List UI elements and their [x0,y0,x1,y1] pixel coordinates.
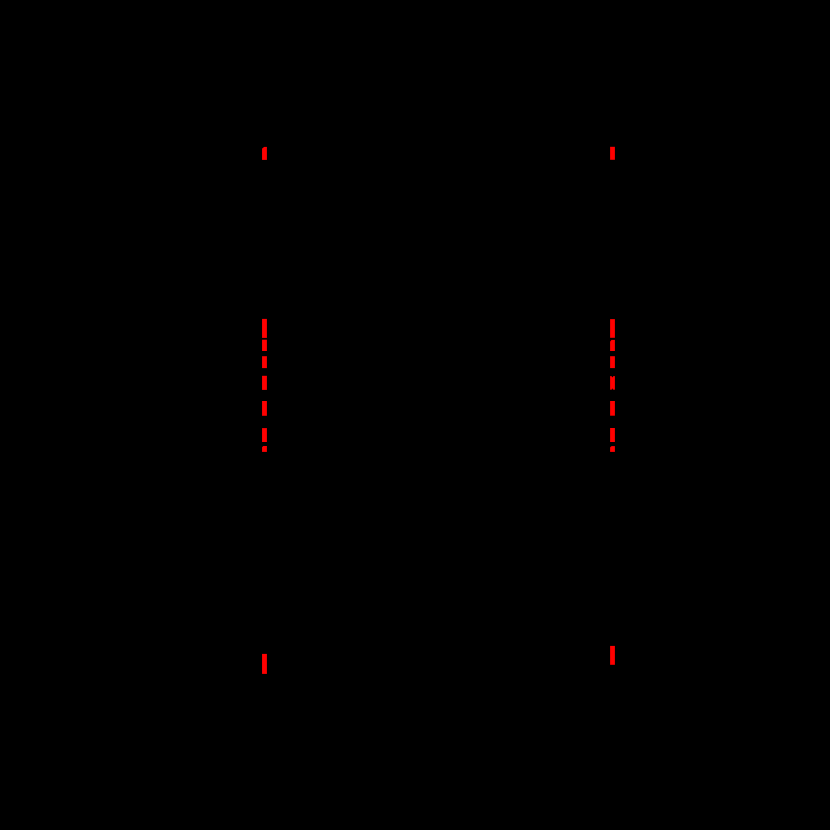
left cut-line dash 1 [262,147,267,160]
left cut-line dash 4 [262,356,267,368]
voltage source V1 [399,370,479,450]
inductor L1 [265,520,275,600]
svg-text:V1: V1 [488,402,508,419]
wire: left branch between R1 and C1 [264,263,266,310]
resistor R2 [605,165,621,263]
left cut-line dash 6 [262,401,267,416]
wire: black notch over right dash 3 top corner [610,340,612,342]
left cut-line dash 8 [262,446,267,452]
resistor R1 [257,165,273,263]
node D [262,678,268,684]
svg-text:L2: L2 [632,552,650,569]
wire: right branch between R2 and C2 [612,263,614,310]
wire: left branch upper segment [264,141,266,166]
right cut-line dash 7 [610,428,615,442]
capacitor C1 [246,455,283,468]
svg-text:R2: R2 [630,232,651,249]
node A [262,138,268,144]
left cut-line dash 2 [262,319,267,338]
ground [420,681,457,715]
left cut-line dash 9 [262,654,267,674]
right cut-line dash 2 [610,319,615,338]
wire: black notch over left dash 1 top corner [262,147,265,149]
capacitor C2 [594,455,631,468]
wire: bottom rail from node D to node C [265,680,613,682]
right cut-line dash 6 [610,401,615,416]
wire: black notch over right dash 5 bottom edge [612,388,614,389]
wire: right branch upper segment [612,141,614,166]
inductor L2 [613,520,623,600]
wire: left branch between C1 and L1 [264,468,266,520]
red dashed cut line (left), drawn behind the black components [262,147,267,674]
wire: black notch over left dash 8 top corner [262,446,264,448]
wire: top rail from node A to node B [265,140,613,142]
wire: right branch lower segment [612,600,614,681]
left cut-line dash 7 [262,428,267,442]
wire: black notch over right dash 8 top corner [610,446,612,448]
right cut-line dash 5 [610,376,615,390]
node B [610,138,616,144]
right cut-line dash 9 [610,646,615,665]
svg-text:L1: L1 [284,552,302,569]
wire: black notch over right dash 5 top edge [611,376,613,378]
left cut-line dash 3 [262,340,267,351]
wire: middle branch from source V1 to bottom rail [438,450,440,681]
wire: right branch between C2 and L2 [612,468,614,520]
wire: middle branch from top rail to source V1 [438,141,440,371]
node C [610,678,616,684]
right cut-line dash 4 [610,356,615,368]
right cut-line dash 1 [610,147,615,160]
right cut-line dash 3 [610,340,615,351]
wire: left branch lower segment [264,600,266,681]
red dashed cut line (right), drawn behind the black components [610,147,615,665]
right cut-line dash 8 [610,446,615,452]
svg-text:R1: R1 [282,232,303,249]
left cut-line dash 5 [262,376,267,390]
svg-text:C1: C1 [292,454,313,471]
svg-text:C2: C2 [640,454,661,471]
